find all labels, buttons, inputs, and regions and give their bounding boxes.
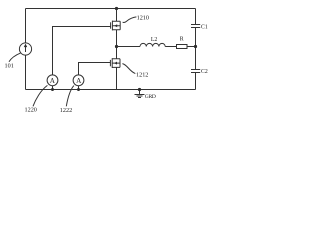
svg-text:GRD: GRD [145, 94, 156, 100]
wire gate line to 1210 (from node of ammeter 1220) [53, 27, 111, 75]
wire gate line to 1212 (from node of ammeter 1222) [79, 63, 111, 75]
wire Q1 source to Q2 drain [116, 30, 118, 59]
wire Q2 source lead [116, 67, 118, 89]
junction dot below ammeter 1220 [51, 88, 54, 91]
wire bottom rail [26, 89, 196, 91]
transistor Q 1210 [111, 21, 121, 31]
svg-text:1212: 1212 [136, 72, 148, 79]
ground [135, 90, 145, 98]
label 101 leader [9, 53, 21, 62]
svg-text:1222: 1222 [60, 107, 72, 114]
wire resistor to right rail [187, 46, 196, 48]
svg-text:L2: L2 [151, 37, 158, 43]
transistor Q 1212 [110, 58, 120, 68]
wire Q1 drain lead [116, 9, 118, 22]
wire top rail [26, 8, 196, 10]
svg-text:1210: 1210 [137, 15, 149, 22]
label 1210 leader [123, 17, 137, 23]
ammeter 1220 [47, 75, 58, 90]
svg-text:C2: C2 [201, 69, 208, 75]
svg-text:C1: C1 [201, 24, 208, 30]
svg-text:A: A [76, 77, 82, 85]
resistor R [177, 45, 188, 49]
capacitor C1 [191, 25, 200, 28]
junction dot right rail / R [194, 45, 197, 48]
svg-text:A: A [50, 77, 56, 85]
ammeter 1222 [73, 75, 84, 90]
junction dot below ammeter 1222 [77, 88, 80, 91]
wire right vertical [195, 9, 197, 90]
wire mid node to inductor [117, 46, 141, 48]
junction dot top rail / Q1 drain [115, 7, 118, 10]
svg-text:1220: 1220 [25, 107, 37, 114]
svg-text:101: 101 [5, 63, 14, 70]
wire inductor to resistor [165, 46, 176, 48]
junction dot ground [138, 88, 141, 91]
current source 101 [19, 43, 31, 55]
junction dot mid node [115, 45, 118, 48]
label 1222 leader [66, 86, 74, 107]
capacitor C2 [191, 70, 200, 73]
svg-text:R: R [180, 36, 184, 42]
inductor L2 [140, 43, 165, 46]
label 1220 leader [33, 85, 47, 106]
wire left vertical (source branch) [25, 9, 27, 90]
label 1212 leader [122, 64, 135, 74]
